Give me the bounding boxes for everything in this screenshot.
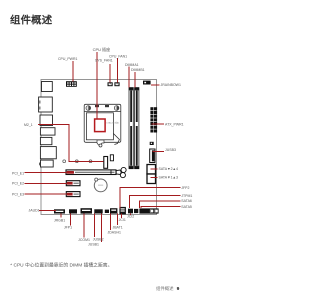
svg-text:JRAINBOW1: JRAINBOW1 — [161, 83, 181, 87]
svg-text:SYS_FAN1: SYS_FAN1 — [95, 59, 113, 63]
svg-text:JCI2: JCI2 — [127, 214, 134, 218]
svg-text:JCI1: JCI1 — [119, 218, 126, 222]
svg-text:组件概述: 组件概述 — [10, 14, 53, 27]
svg-text:JFP2: JFP2 — [181, 186, 189, 190]
svg-text:DIMMA1: DIMMA1 — [125, 63, 139, 67]
svg-text:JAUD1: JAUD1 — [29, 209, 40, 213]
svg-text:组件概述: 组件概述 — [156, 285, 174, 292]
svg-text:JUSB1: JUSB1 — [88, 242, 99, 246]
svg-text:JDASH1: JDASH1 — [108, 230, 121, 234]
svg-text:CPU_PWR1: CPU_PWR1 — [58, 57, 78, 61]
svg-text:JUSB3: JUSB3 — [165, 148, 176, 152]
svg-text:JTPM1: JTPM1 — [181, 194, 192, 198]
svg-text:JUSB2: JUSB2 — [93, 238, 104, 242]
svg-text:SATA6: SATA6 — [181, 199, 192, 203]
svg-text:JCOM1: JCOM1 — [78, 238, 90, 242]
svg-text:PCI_E3: PCI_E3 — [12, 193, 24, 197]
svg-text:ATX_PWR1: ATX_PWR1 — [165, 123, 184, 127]
svg-text:SATA5: SATA5 — [181, 205, 192, 209]
svg-text:CPU 插座: CPU 插座 — [93, 46, 111, 52]
svg-text:CPU_FAN1: CPU_FAN1 — [109, 55, 127, 59]
svg-text:9: 9 — [177, 286, 180, 292]
svg-text:PCI_E2: PCI_E2 — [12, 182, 24, 186]
svg-text:* CPU 中心位置到最靠近的 DIMM 插槽之距离。: * CPU 中心位置到最靠近的 DIMM 插槽之距离。 — [10, 262, 112, 269]
svg-text:JRGB1: JRGB1 — [54, 218, 65, 222]
svg-text:SATA▼2▲4: SATA▼2▲4 — [159, 167, 178, 171]
svg-text:JBAT1: JBAT1 — [112, 225, 122, 229]
svg-text:DIMMB1: DIMMB1 — [131, 68, 145, 72]
svg-text:PCI_E1: PCI_E1 — [12, 172, 24, 176]
svg-text:M2_1: M2_1 — [24, 123, 33, 127]
svg-text:JFP1: JFP1 — [64, 226, 72, 230]
svg-text:SATA▼1▲3: SATA▼1▲3 — [159, 176, 178, 180]
